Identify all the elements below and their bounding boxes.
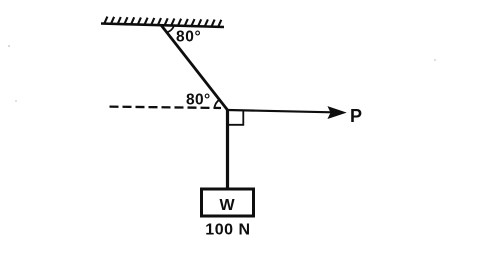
scan speck 3	[434, 59, 436, 61]
angle arc at ceiling	[167, 26, 174, 32]
angle arc at junction	[214, 100, 219, 109]
right-angle marker	[229, 111, 244, 125]
dashed horizontal reference line	[110, 107, 222, 108]
arrowhead of P	[329, 107, 345, 118]
svg-text:W: W	[220, 197, 236, 214]
ceiling line	[101, 24, 224, 28]
vertical string to weight	[226, 110, 229, 188]
weight box W	[202, 189, 254, 216]
force line P	[228, 110, 333, 112]
ceiling hatching	[104, 17, 221, 28]
string from ceiling to junction	[161, 25, 228, 110]
svg-text:100 N: 100 N	[205, 222, 250, 239]
svg-text:P: P	[350, 106, 362, 126]
scan speck 1	[8, 45, 10, 47]
svg-text:80°: 80°	[186, 92, 211, 109]
svg-text:80°: 80°	[176, 28, 201, 45]
scan speck 2	[15, 100, 17, 102]
